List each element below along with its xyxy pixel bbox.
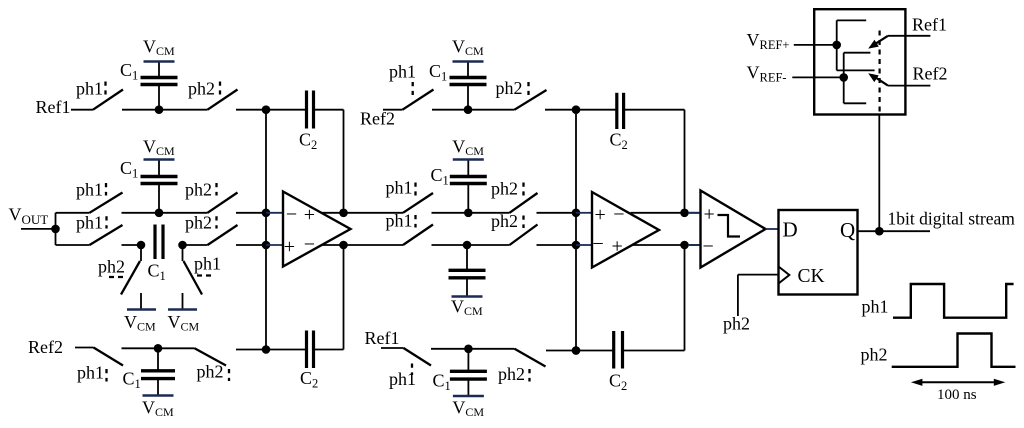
- svg-text:ph2: ph2: [491, 211, 518, 231]
- svg-text:ph1: ph1: [386, 211, 413, 231]
- svg-text:VCM: VCM: [124, 312, 156, 334]
- svg-text:VCM: VCM: [143, 137, 175, 159]
- svg-text:ph1: ph1: [77, 363, 104, 383]
- svg-text:Q: Q: [840, 218, 855, 242]
- svg-text:Ref2: Ref2: [913, 64, 948, 84]
- svg-text:−: −: [286, 203, 297, 225]
- svg-text:C1: C1: [429, 61, 447, 84]
- svg-text:−: −: [304, 234, 315, 256]
- svg-text:+: +: [704, 203, 715, 225]
- svg-text:C2: C2: [610, 130, 628, 153]
- svg-text:ph2: ph2: [188, 79, 215, 99]
- svg-text:100 ns: 100 ns: [937, 387, 977, 403]
- svg-text:VCM: VCM: [452, 398, 484, 420]
- svg-text:ph1: ph1: [386, 178, 413, 198]
- svg-text:C2: C2: [299, 130, 317, 153]
- svg-text:−: −: [593, 233, 604, 255]
- svg-text:VCM: VCM: [451, 297, 483, 319]
- svg-text:−: −: [613, 204, 624, 226]
- svg-text:C1: C1: [433, 371, 451, 394]
- svg-text:ph2: ph2: [496, 78, 523, 98]
- svg-text:C1: C1: [431, 165, 449, 188]
- svg-text:ph2: ph2: [861, 345, 888, 365]
- svg-text:ph1: ph1: [389, 369, 416, 389]
- svg-text:VOUT: VOUT: [9, 205, 49, 228]
- svg-text:VREF-: VREF-: [747, 63, 787, 85]
- svg-text:1bit digital stream: 1bit digital stream: [888, 209, 1016, 229]
- svg-text:+: +: [612, 235, 623, 257]
- svg-text:ph2: ph2: [197, 362, 224, 382]
- svg-text:VCM: VCM: [168, 312, 200, 334]
- svg-text:D: D: [783, 218, 798, 242]
- svg-text:VCM: VCM: [143, 37, 175, 59]
- svg-text:ph1: ph1: [76, 180, 103, 200]
- svg-text:ph2: ph2: [498, 364, 525, 384]
- svg-text:+: +: [595, 204, 606, 226]
- svg-text:VCM: VCM: [452, 137, 484, 159]
- svg-text:Ref1: Ref1: [36, 97, 71, 117]
- svg-text:ph2: ph2: [185, 213, 212, 233]
- svg-text:C1: C1: [148, 261, 166, 284]
- svg-text:−: −: [703, 236, 714, 258]
- svg-text:C1: C1: [123, 369, 141, 392]
- svg-text:ph1: ph1: [389, 62, 416, 82]
- svg-text:ph2: ph2: [185, 180, 212, 200]
- svg-text:C2: C2: [609, 371, 627, 394]
- svg-text:ph1: ph1: [76, 79, 103, 99]
- svg-text:VREF+: VREF+: [747, 30, 790, 52]
- svg-text:Ref2: Ref2: [360, 109, 395, 129]
- svg-text:C1: C1: [120, 158, 138, 181]
- svg-text:ph2: ph2: [723, 314, 750, 334]
- svg-text:VCM: VCM: [142, 398, 174, 420]
- svg-text:+: +: [284, 236, 295, 258]
- svg-text:C1: C1: [120, 60, 138, 83]
- svg-text:ph1: ph1: [194, 254, 221, 274]
- svg-text:ph2: ph2: [98, 257, 125, 277]
- svg-text:C2: C2: [300, 368, 318, 391]
- svg-text:Ref2: Ref2: [28, 337, 63, 357]
- svg-text:ph1: ph1: [862, 296, 889, 316]
- svg-text:ph1: ph1: [76, 213, 103, 233]
- svg-text:VCM: VCM: [452, 37, 484, 59]
- svg-text:Ref1: Ref1: [365, 328, 400, 348]
- svg-text:+: +: [304, 204, 315, 226]
- svg-text:CK: CK: [798, 266, 825, 287]
- svg-text:Ref1: Ref1: [912, 15, 947, 35]
- svg-text:ph2: ph2: [491, 179, 518, 199]
